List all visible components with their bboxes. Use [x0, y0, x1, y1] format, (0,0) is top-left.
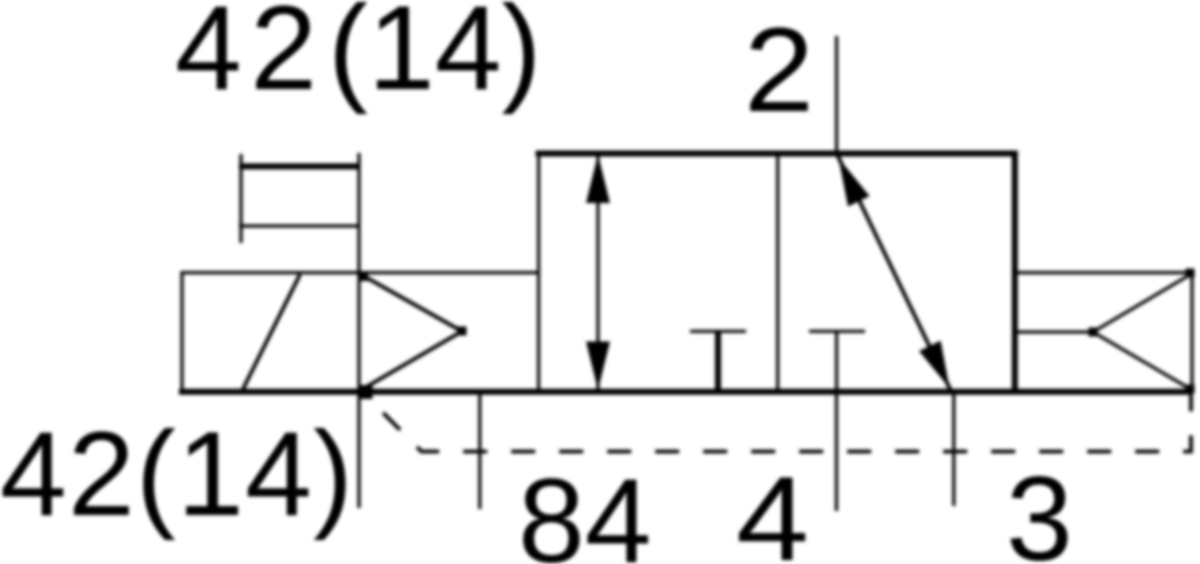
- svg-text:42: 42: [175, 0, 317, 115]
- node at triangle apex: [458, 327, 467, 336]
- flow path diagonal 2 to 3: [837, 154, 951, 392]
- solenoid coil diagonal: [243, 275, 300, 390]
- valve body top edge: [536, 151, 1018, 157]
- node at pilot triangle bottom corner: [1186, 385, 1195, 394]
- bottom rail line: [179, 389, 1192, 395]
- blocked port T stem right square: [835, 331, 838, 390]
- electrical connector top bar: [239, 163, 360, 169]
- node at triangle top vertex: [358, 271, 368, 281]
- pilot stem vertical line: [357, 153, 360, 508]
- air pilot return middle line: [1015, 330, 1093, 333]
- air pilot return base edge: [1190, 273, 1193, 390]
- blocked port T stem left square: [715, 331, 721, 390]
- pilot control dashed line 84: [364, 392, 1192, 452]
- junction node: [359, 385, 373, 399]
- node at pilot triangle apex: [1089, 328, 1098, 337]
- svg-text:2: 2: [744, 3, 814, 137]
- port 3 line: [952, 391, 955, 506]
- solenoid coil box left edge: [180, 271, 183, 391]
- solenoid coil top edge and connector to valve: [180, 271, 538, 274]
- port 84 line: [478, 391, 481, 509]
- node at pilot triangle top corner: [1186, 269, 1195, 278]
- valve body divider: [776, 154, 779, 392]
- svg-text:42(14): 42(14): [0, 407, 353, 541]
- solenoid pilot triangle: [361, 275, 462, 391]
- svg-text:84: 84: [518, 454, 651, 564]
- blocked port T bar left square: [690, 330, 746, 333]
- double arrow head bottom: [586, 342, 610, 391]
- port 4 line: [835, 391, 838, 511]
- air pilot return top line: [1015, 271, 1192, 274]
- double arrow head top: [586, 155, 610, 204]
- valve body right edge: [1012, 151, 1018, 392]
- valve body left edge: [537, 152, 540, 391]
- svg-text:3: 3: [1006, 452, 1073, 564]
- blocked port T bar right square: [809, 330, 865, 333]
- svg-text:4: 4: [736, 452, 809, 564]
- electrical connector bottom bar: [239, 224, 360, 227]
- double arrow shaft: [596, 156, 599, 389]
- flow arrow head top: [839, 158, 870, 207]
- port 2 line: [835, 36, 838, 154]
- air pilot return triangle: [1093, 274, 1192, 391]
- flow arrow head bottom: [919, 341, 950, 388]
- svg-text:(14): (14): [328, 0, 541, 115]
- electrical connector left tick: [239, 154, 242, 243]
